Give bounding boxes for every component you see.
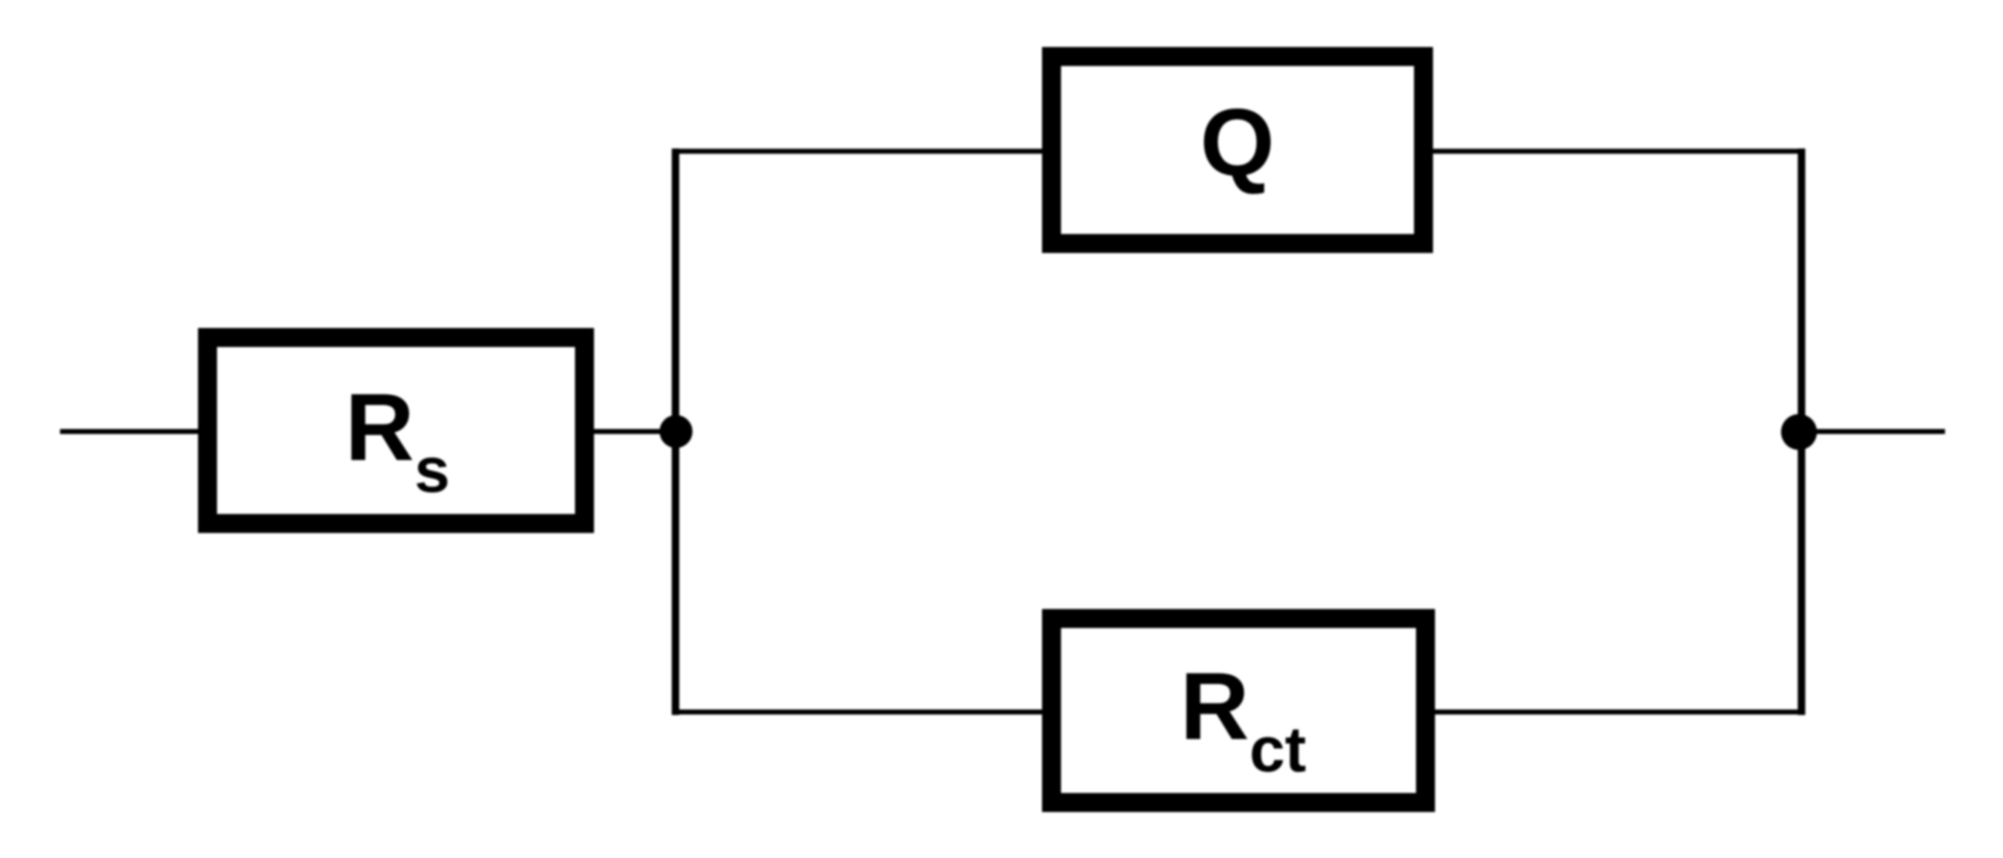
svg-text:Q: Q: [1200, 89, 1275, 196]
